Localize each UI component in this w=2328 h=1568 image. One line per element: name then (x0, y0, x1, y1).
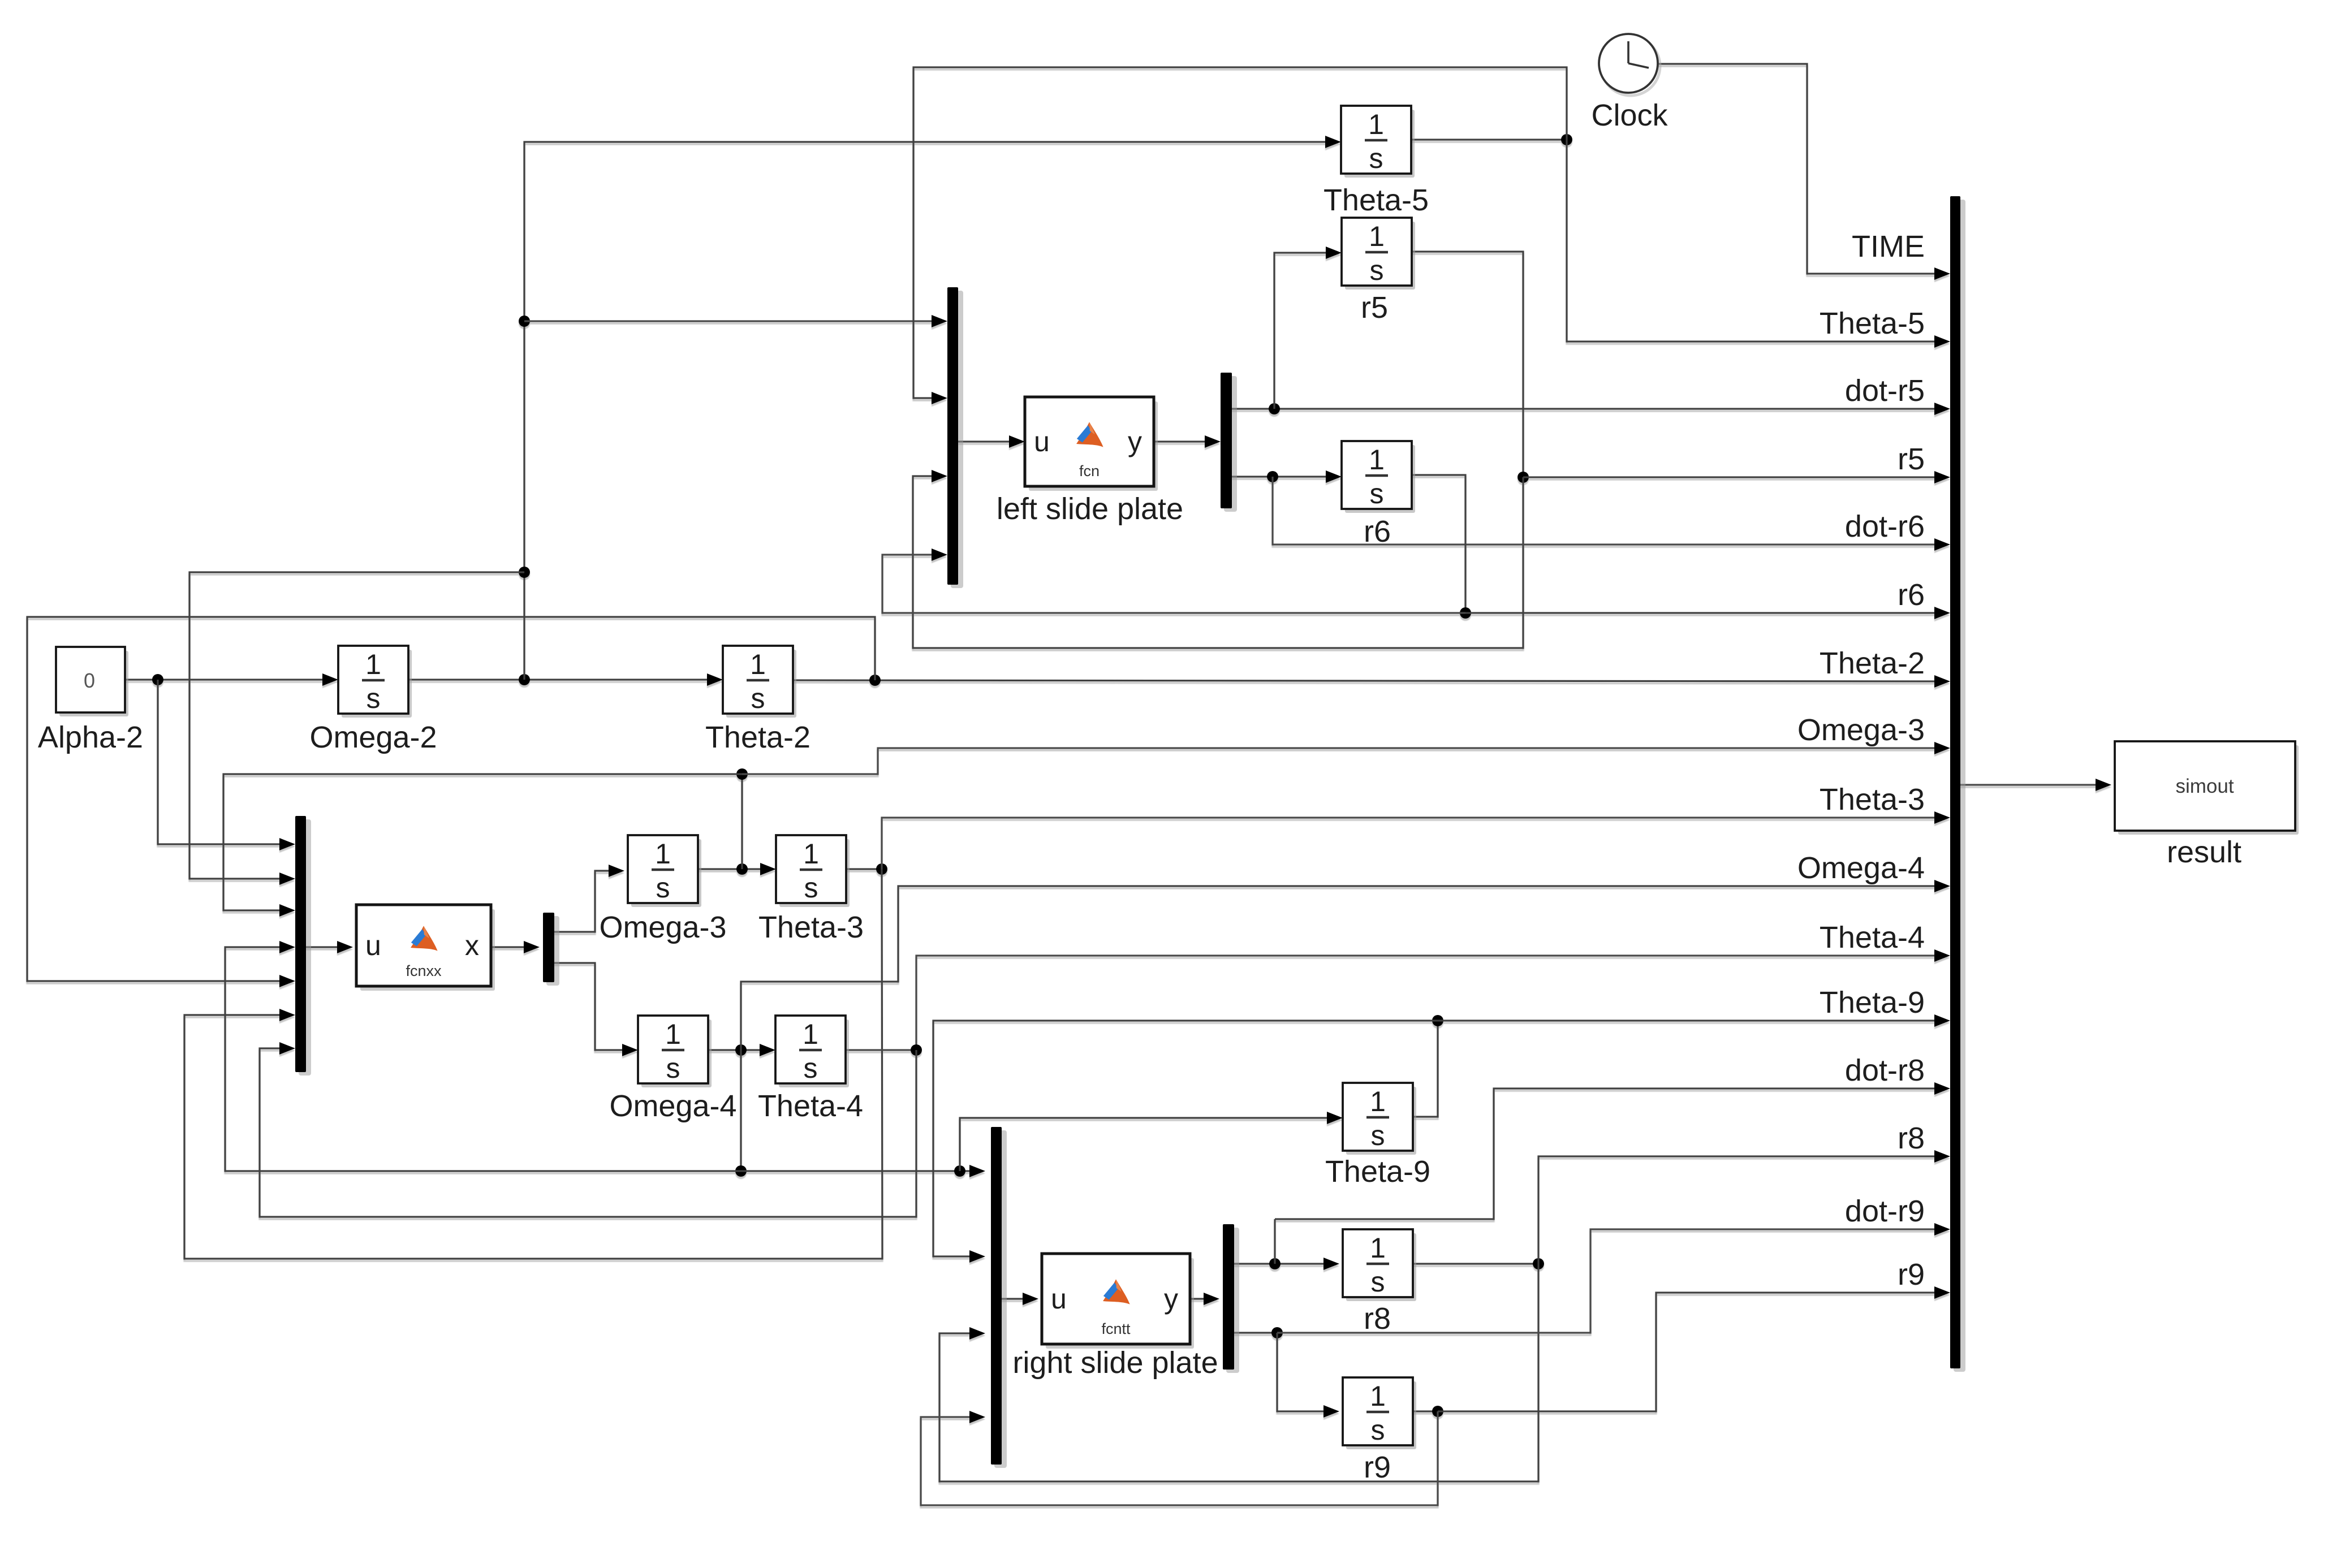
node Omega-2 output junction (519, 674, 530, 685)
svg-text:1: 1 (1370, 1380, 1386, 1412)
svg-text:1: 1 (1370, 1086, 1386, 1117)
svg-text:Theta-9: Theta-9 (1325, 1155, 1430, 1189)
wire r5 feedback to left plate mux input 3 (913, 476, 1523, 648)
node Omega-3 output junction (736, 863, 748, 875)
svg-text:s: s (804, 872, 818, 904)
svg-text:dot-r6: dot-r6 (1845, 509, 1925, 543)
svg-text:1: 1 (750, 649, 766, 680)
svg-text:left slide plate: left slide plate (997, 492, 1183, 526)
svg-text:1: 1 (803, 1018, 818, 1050)
node Omega-2 riser junction B (519, 567, 530, 578)
svg-text:1: 1 (365, 649, 381, 680)
svg-text:1: 1 (803, 838, 819, 870)
wire dot-r8 to big mux (1275, 1088, 1946, 1219)
wire Alpha-2 to Omega-2 (125, 679, 334, 680)
wire dot-r6 to big mux (1273, 477, 1946, 545)
node r9 output junction (1432, 1406, 1443, 1417)
integrator r9 (1346, 1381, 1416, 1449)
node dot-r6 junction (1267, 471, 1278, 482)
svg-text:right slide plate: right slide plate (1012, 1346, 1218, 1380)
wire right demux lower output (1234, 1332, 1277, 1333)
svg-text:Theta-2: Theta-2 (705, 720, 811, 754)
integrator Theta-5 (1344, 110, 1415, 178)
wire dot-r5 to r5 input (1274, 253, 1338, 409)
svg-text:x: x (465, 930, 479, 961)
svg-text:Theta-5: Theta-5 (1323, 183, 1429, 217)
node Theta-9 output junction (1432, 1015, 1443, 1026)
svg-text:s: s (1371, 1414, 1385, 1446)
wire Omega-4 to big mux (741, 886, 1946, 1050)
wire Theta-9 to big mux (1438, 1020, 1946, 1021)
wire Omega-2 to left plate mux input 1 (524, 320, 943, 322)
wire Theta-5 output (1411, 139, 1567, 140)
svg-text:u: u (365, 930, 381, 961)
wire to r9 input (1277, 1333, 1336, 1411)
wire Theta-5 to big mux (1567, 140, 1946, 342)
svg-text:fcnxx: fcnxx (406, 962, 442, 979)
node Omega-4 low junction (735, 1165, 747, 1177)
svg-text:1: 1 (1369, 444, 1385, 476)
node r5 junction (1517, 472, 1529, 483)
svg-text:s: s (367, 683, 381, 714)
svg-text:1: 1 (1369, 221, 1385, 252)
wire Omega-3 to big mux (742, 748, 1946, 774)
svg-text:1: 1 (655, 838, 671, 870)
svg-text:TIME: TIME (1852, 230, 1925, 264)
wire r8 to big mux (1538, 1156, 1946, 1264)
svg-text:u: u (1034, 426, 1050, 457)
wire r6 to big mux (1465, 612, 1946, 614)
svg-text:s: s (804, 1052, 818, 1084)
wire Omega-2 branch to Theta-5 input (524, 142, 1337, 680)
node Omega-3 branch junction (736, 768, 748, 780)
wire r9 feedback to right plate mux input 4 (921, 1411, 1438, 1505)
svg-text:Alpha-2: Alpha-2 (38, 720, 143, 754)
svg-text:Theta-3: Theta-3 (758, 910, 864, 944)
wire Theta-9 feedback to right plate mux input 2 (933, 1021, 1438, 1256)
svg-text:s: s (1369, 142, 1383, 174)
demux right plate (1226, 1228, 1239, 1373)
svg-text:1: 1 (1368, 109, 1384, 140)
svg-text:r6: r6 (1898, 578, 1925, 612)
integrator Theta-3 (779, 839, 850, 907)
wire Omega-4 to right plate mux input 1 (741, 1170, 981, 1172)
wire Omega-3 to fcnxx mux input 3 (223, 774, 742, 910)
wire r5 to big mux (1523, 476, 1946, 478)
node r6 junction (1460, 607, 1471, 619)
svg-text:s: s (666, 1052, 680, 1084)
svg-text:Omega-3: Omega-3 (599, 910, 726, 944)
svg-text:s: s (656, 872, 670, 904)
svg-text:fcn: fcn (1079, 463, 1100, 480)
wire Omega-3 riser (741, 774, 743, 869)
svg-text:fcntt: fcntt (1101, 1320, 1131, 1337)
integrator Theta-2 (726, 650, 796, 718)
wire Theta-3 feedback to fcnxx mux input 6 (184, 869, 882, 1259)
wire Omega-3 to Theta-3 (698, 868, 773, 870)
svg-text:simout: simout (2175, 775, 2234, 797)
svg-text:0: 0 (84, 669, 95, 692)
wire Theta-4 to big mux (846, 956, 1946, 1050)
integrator r6 (1345, 445, 1415, 513)
svg-text:r5: r5 (1361, 291, 1388, 325)
wire fcnxx mux to fcnxx (306, 946, 350, 948)
wire dot-r8 riser (1274, 1219, 1275, 1264)
fcn U1 left slide plate (1029, 401, 1158, 491)
fcn U3 right slide plate (1046, 1258, 1194, 1349)
fcn U2 fcnxx (360, 909, 495, 991)
wire to Theta-9 input (960, 1118, 1339, 1171)
wire dot-r5 to big mux (1232, 408, 1946, 409)
svg-text:s: s (1371, 1266, 1385, 1298)
wire right plate mux to fcntt (1002, 1298, 1035, 1299)
svg-text:s: s (1370, 478, 1384, 509)
wire Omega-2 to Theta-2 (408, 679, 719, 680)
wire right demux to r8 (1234, 1263, 1336, 1264)
svg-text:r9: r9 (1898, 1258, 1925, 1291)
integrator Omega-2 (342, 650, 412, 718)
wire Clock to big mux (TIME) (1658, 64, 1946, 274)
wire dot-r9 to big mux (1277, 1229, 1946, 1333)
wire r6 feedback to left plate mux input 4 (882, 555, 1465, 613)
svg-text:u: u (1051, 1283, 1067, 1315)
svg-text:dot-r5: dot-r5 (1845, 374, 1925, 408)
node Theta-3 output junction (876, 863, 887, 875)
wire Theta-2 to big mux (793, 680, 1946, 681)
wire Omega-4 to Theta-4 (708, 1049, 772, 1051)
svg-text:r8: r8 (1364, 1302, 1391, 1336)
integrator Theta-4 (779, 1020, 849, 1087)
svg-text:Theta-4: Theta-4 (1820, 921, 1925, 954)
mux left plate (951, 291, 963, 588)
wire Theta-3 to big mux (882, 818, 1946, 869)
wire r8 output (1413, 1263, 1538, 1264)
wire fcnxx to demux (491, 946, 536, 948)
svg-text:y: y (1164, 1283, 1178, 1315)
svg-text:Theta-2: Theta-2 (1820, 646, 1925, 680)
svg-text:Omega-2: Omega-2 (309, 720, 437, 754)
integrator Omega-4 (641, 1020, 712, 1087)
wire Alpha-2 to fcnxx mux input 1 (158, 680, 292, 844)
svg-text:Clock: Clock (1591, 98, 1668, 132)
wire fcnxx demux to Omega-4 (554, 963, 635, 1050)
svg-text:Omega-3: Omega-3 (1797, 713, 1925, 747)
wire Theta-5 feedback to left plate mux input 2 (913, 67, 1567, 398)
integrator r5 (1345, 222, 1415, 290)
svg-text:Theta-5: Theta-5 (1820, 306, 1925, 340)
wire Omega-2 to fcnxx mux input 2 (189, 572, 524, 879)
svg-text:Omega-4: Omega-4 (609, 1089, 736, 1123)
node Theta-4 output junction (911, 1044, 922, 1056)
wire fcnxx demux to Omega-3 (554, 871, 621, 932)
node dot-r9 junction (1271, 1327, 1283, 1338)
svg-text:s: s (1371, 1120, 1385, 1151)
svg-text:dot-r9: dot-r9 (1845, 1194, 1925, 1228)
node dot-r8 junction (1269, 1258, 1281, 1269)
wire r9 to big mux (1438, 1293, 1946, 1411)
wire big mux to simout (1960, 784, 2108, 785)
svg-text:1: 1 (1370, 1232, 1386, 1264)
integrator r8 (1346, 1233, 1416, 1301)
svg-text:r9: r9 (1364, 1450, 1391, 1484)
wire Theta-9 output (1413, 1021, 1438, 1117)
node r8 output junction (1533, 1258, 1544, 1269)
svg-text:Theta-9: Theta-9 (1820, 986, 1925, 1020)
wire Theta-3 output (846, 868, 882, 870)
wire Theta-2 loop to fcnxx mux input 5 (27, 617, 875, 981)
wire left plate mux to fcn (958, 440, 1021, 442)
svg-text:r6: r6 (1364, 515, 1391, 548)
svg-text:Omega-4: Omega-4 (1797, 851, 1925, 885)
svg-text:r5: r5 (1898, 442, 1925, 476)
mux fcnxx (299, 819, 311, 1075)
demux fcnxx (546, 916, 559, 986)
node Alpha-2 output junction (152, 674, 163, 685)
wire r8 feedback to right plate mux input 3 (939, 1264, 1538, 1481)
node Theta-2 output junction (869, 675, 881, 686)
wire Omega-4 to fcnxx mux input 4 (225, 947, 741, 1171)
svg-text:1: 1 (665, 1018, 681, 1050)
wire fcntt to right demux (1190, 1298, 1216, 1299)
svg-text:Theta-4: Theta-4 (758, 1089, 863, 1123)
svg-text:Theta-3: Theta-3 (1820, 783, 1925, 817)
block simout (To Workspace) (2118, 745, 2299, 835)
svg-text:s: s (751, 683, 765, 714)
integrator Omega-3 (631, 839, 701, 907)
svg-text:r8: r8 (1898, 1121, 1925, 1155)
node Omega-4 output junction (735, 1044, 747, 1056)
wire fcn to left demux (1154, 440, 1217, 442)
clock block (1601, 37, 1660, 96)
wire r6 output (1412, 475, 1465, 613)
wire left demux to r6 (1232, 476, 1338, 477)
constant Alpha-2 (59, 651, 128, 716)
node Theta-5 output junction (1561, 134, 1572, 145)
svg-text:result: result (2167, 835, 2241, 869)
svg-text:s: s (1370, 254, 1384, 286)
wire Theta-4 feedback to fcnxx mux input 7 (260, 1048, 916, 1217)
node Omega-2 riser junction A (519, 316, 530, 327)
svg-text:dot-r8: dot-r8 (1845, 1053, 1925, 1087)
svg-text:y: y (1128, 426, 1142, 457)
wire r5 output (1412, 252, 1523, 477)
node dot-r5 junction (1269, 403, 1280, 414)
mux big (1954, 200, 1965, 1372)
integrator Theta-9 (1346, 1087, 1416, 1155)
node Theta-9 feed junction (954, 1165, 965, 1177)
wire r9 output (1413, 1410, 1438, 1412)
mux right plate (994, 1130, 1007, 1468)
demux left plate (1224, 376, 1237, 512)
wire Omega-4 down branch (740, 1050, 741, 1171)
